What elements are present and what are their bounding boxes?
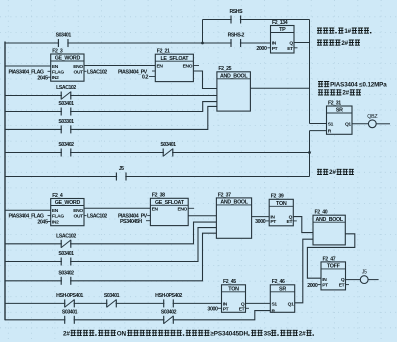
svg-text:F2_21: F2_21	[157, 49, 170, 55]
svg-text:S03401: S03401	[104, 293, 120, 299]
wire rung1 left	[5, 42, 271, 44]
wire RSHS branch vertical	[202, 20, 204, 44]
F2_38 ENO stub	[188, 207, 194, 209]
F2_45 ET stub	[246, 307, 250, 309]
contact S03301	[58, 119, 74, 133]
wire 3000 to F2_45 PT	[218, 307, 222, 309]
junction node rung1/RSHS branch	[201, 42, 204, 45]
svg-text:S03402: S03402	[58, 142, 74, 148]
svg-text:ENO: ENO	[177, 206, 187, 212]
svg-text:OUT: OUT	[74, 214, 84, 220]
svg-text:PT: PT	[272, 46, 278, 52]
function block F2_38 GE_SFLOAT	[150, 193, 188, 226]
svg-text:F2_39: F2_39	[271, 194, 284, 200]
svg-text:S1: S1	[328, 122, 334, 128]
svg-text:IN2: IN2	[52, 220, 59, 226]
contact HSH-0PS401 NC	[56, 293, 83, 307]
svg-text:F2_47: F2_47	[323, 256, 336, 262]
svg-text:ET: ET	[339, 283, 345, 289]
wire F2_39 Q to F2_40 input1	[293, 217, 313, 233]
svg-text:S03301: S03301	[58, 119, 74, 125]
svg-text:3S: 3S	[264, 330, 272, 337]
contact S03401 NC (rung S03402)	[160, 142, 176, 156]
wire 2000 to F2_47 PT	[318, 284, 321, 286]
annotation: oil pressure PIAS3404 <=0.12MPa	[318, 81, 387, 88]
contact S03401 NC (HSH row)	[104, 293, 120, 307]
svg-text:S03401: S03401	[160, 142, 176, 148]
wire 0.2 to F2_21	[149, 76, 155, 78]
svg-text:FLAG: FLAG	[52, 214, 64, 220]
coil J5 (F2_47 output)	[360, 270, 368, 284]
svg-text:QBZ: QBZ	[367, 114, 378, 120]
wire F2_3 ENO to F2_21 EN	[84, 65, 155, 67]
contact S03402	[58, 142, 74, 156]
wire rung LSAC102-NC	[5, 95, 217, 97]
function block F2_3 GE_WORD	[51, 48, 84, 81]
svg-text:F2_37: F2_37	[218, 192, 231, 198]
svg-text:RSHS-2: RSHS-2	[228, 33, 245, 39]
svg-text:EN: EN	[152, 206, 159, 212]
wire PIAS3404_PV to F2_21	[152, 70, 155, 72]
svg-text:F2_31: F2_31	[328, 100, 341, 106]
annotation: normally start 2# pump manually when 1# running	[317, 28, 371, 35]
wire PS34045H to F2_38	[146, 220, 150, 222]
wire F2_46 Q1 up to F2_40 input2	[295, 239, 313, 303]
svg-text:ENO: ENO	[183, 64, 193, 70]
svg-text:ET: ET	[287, 46, 293, 52]
svg-text:PT: PT	[223, 306, 229, 312]
svg-text:F2_45: F2_45	[223, 279, 236, 285]
wire S03402/J5 bus to R	[310, 130, 327, 132]
wire rung LSAC102-NC(2) to F2_37	[5, 222, 216, 244]
function block F2_47 TOFF	[321, 256, 346, 290]
svg-text:2#: 2#	[299, 330, 306, 337]
wire rung S03401 to F2_25	[5, 102, 217, 112]
svg-text:RSHS: RSHS	[229, 9, 243, 15]
svg-text:2#: 2#	[341, 40, 348, 47]
svg-text:LSAC102: LSAC102	[56, 234, 76, 240]
svg-text:EN: EN	[52, 208, 59, 214]
wire coil QBZ right	[376, 123, 390, 125]
wire F2_21 OUT to F2_25 input1	[193, 71, 217, 89]
contact S03401 (reset row)	[62, 310, 78, 324]
annotation line2	[317, 40, 360, 47]
wire bus down to SR S1	[309, 20, 311, 124]
svg-text:ET: ET	[287, 219, 293, 225]
svg-text:J5: J5	[119, 166, 124, 172]
svg-text:F2_4: F2_4	[52, 193, 63, 199]
wire F2_25 output to bus	[250, 87, 309, 89]
function block F2_134 TP	[271, 20, 295, 53]
svg-text:S03401: S03401	[56, 33, 72, 39]
wire coil J5 right	[368, 279, 379, 281]
function block F2_37 AND_BOOL	[216, 192, 251, 238]
svg-text:2045: 2045	[37, 220, 48, 226]
function block F2_40 AND_BOOL	[313, 210, 345, 245]
svg-text:S03402: S03402	[161, 310, 177, 316]
function block F2_31 SR	[327, 100, 353, 134]
svg-text:LSAC102: LSAC102	[56, 85, 76, 91]
wire PIAS3404_FLAG to FLAG	[48, 70, 51, 72]
wire SR Q1 to coil	[352, 123, 368, 125]
function block F2_25 AND_BOOL	[217, 66, 251, 111]
annotation: auto start 2# pump	[318, 89, 361, 96]
svg-text:0.2: 0.2	[142, 75, 149, 81]
contact HSH-0PS402	[155, 293, 182, 307]
svg-text:3000: 3000	[255, 219, 266, 225]
svg-text:S03401: S03401	[62, 310, 78, 316]
wire F2_37 out to F2_39 IN	[252, 216, 270, 218]
svg-text:F2_25: F2_25	[218, 66, 231, 72]
svg-text:OUT: OUT	[74, 69, 84, 75]
svg-text:ON: ON	[117, 330, 127, 337]
svg-text:F2_3: F2_3	[52, 48, 63, 54]
svg-text:S03402: S03402	[58, 271, 74, 277]
wire PIAS3404_PV to F2_38	[147, 215, 150, 217]
wire F2_4 ENO to F2_38 EN	[84, 207, 150, 209]
wire 2000 to PT	[268, 47, 271, 49]
function block F2_45 TON	[222, 279, 246, 312]
wire RSHS branch horizontal	[203, 19, 310, 21]
wire rung S03402	[5, 152, 310, 154]
svg-text:F2_40: F2_40	[315, 210, 328, 216]
wire rung S03301 to F2_25	[5, 106, 217, 129]
svg-text:F2_134: F2_134	[272, 20, 288, 26]
contact S03402 (bottom rung)	[58, 271, 74, 285]
contact S03401 (rung1)	[56, 33, 72, 47]
F2_47 ET stub	[346, 284, 350, 286]
svg-text:PS34045H: PS34045H	[120, 219, 142, 225]
svg-text:S03401: S03401	[58, 101, 74, 107]
wire F2_45 Q to F2_46 S1	[246, 302, 271, 304]
svg-text:LSAC102: LSAC102	[87, 69, 107, 75]
coil QBZ (F2_31 output)	[367, 114, 378, 128]
wire rung S03402(2) to F2_37	[5, 233, 216, 281]
svg-text:S03401: S03401	[58, 251, 74, 257]
contact RSHS	[229, 9, 243, 23]
svg-text:2000: 2000	[307, 283, 318, 289]
wire rung HSH row	[5, 302, 222, 304]
svg-text:PT: PT	[270, 219, 276, 225]
svg-text:ET: ET	[239, 306, 245, 312]
svg-text:HSH-0PS401: HSH-0PS401	[56, 293, 83, 299]
wire rung S03401(3) to F2_37	[5, 228, 216, 262]
function block F2_39 TON	[269, 194, 293, 226]
svg-text:2#: 2#	[329, 169, 336, 176]
TP ET stub	[294, 47, 298, 49]
wire 3000 to F2_39 PT	[266, 220, 269, 222]
wire F2_47 Q to coil J5	[346, 279, 361, 281]
svg-text:EN: EN	[52, 64, 59, 70]
wire PIAS3404_FLAG to FLAG (F2_4)	[48, 215, 51, 217]
wire rung reset row to F2_46 R	[5, 311, 270, 320]
svg-text:PT: PT	[322, 283, 328, 289]
F2_39 ET stub	[293, 220, 297, 222]
svg-text:3000: 3000	[207, 307, 218, 313]
annotation: bottom interlock note	[63, 330, 314, 338]
contact RSHS-2	[228, 33, 245, 47]
svg-text:2000: 2000	[256, 46, 267, 52]
svg-text:2#: 2#	[63, 330, 70, 337]
svg-text:Q1: Q1	[345, 122, 351, 128]
contact S03402 NC (reset row)	[161, 310, 177, 324]
wire rung J5	[5, 176, 310, 178]
function block F2_46 SR	[270, 279, 294, 314]
svg-text:FLAG: FLAG	[52, 69, 64, 75]
svg-text:F2_38: F2_38	[152, 193, 165, 199]
svg-text:Q: Q	[341, 277, 345, 283]
contact J5	[116, 166, 126, 180]
svg-text:EN: EN	[157, 64, 164, 70]
wire bus to S1	[310, 123, 327, 125]
wire F2_3 OUT stub	[84, 70, 87, 72]
contact S03401 (2nd rung)	[58, 101, 74, 115]
wire 2045 to F2_4 IN2	[48, 221, 51, 223]
contact LSAC102 NC	[56, 85, 76, 99]
wire F2_38 OUT to F2_37 input1	[188, 215, 216, 217]
left power rail	[4, 42, 6, 321]
svg-text:J5: J5	[362, 270, 367, 276]
wire rail to F2_3 EN	[5, 65, 51, 67]
svg-text:2045: 2045	[37, 75, 48, 81]
svg-text:LSAC102: LSAC102	[87, 214, 107, 220]
svg-text:Q: Q	[289, 41, 293, 47]
svg-text:≥PS34045DH: ≥PS34045DH	[210, 330, 248, 337]
svg-text:IN2: IN2	[52, 75, 59, 81]
svg-text:ENO: ENO	[73, 64, 83, 70]
wire F2_4 OUT stub	[84, 215, 87, 217]
svg-text:2#: 2#	[342, 90, 349, 97]
svg-text:F2_46: F2_46	[272, 279, 285, 285]
annotation: start 2# pump reset	[317, 169, 354, 176]
function block F2_4 GE_WORD	[51, 193, 84, 226]
wire 2045 to IN2	[48, 76, 51, 78]
svg-text:Q1: Q1	[288, 301, 294, 307]
wire F2_40 out loop to F2_47 IN	[307, 234, 354, 278]
function block F2_21 LE_SFLOAT	[155, 49, 193, 82]
svg-text:1#: 1#	[344, 28, 351, 35]
wire rail to F2_4 EN	[5, 209, 51, 211]
contact LSAC102 NC (bottom)	[56, 234, 76, 248]
svg-text:PIAS3404 ≤0.12MPa: PIAS3404 ≤0.12MPa	[330, 81, 387, 88]
svg-text:ENO: ENO	[73, 208, 83, 214]
wire TP Q output	[294, 42, 310, 44]
wire reset bus vertical	[309, 131, 311, 177]
svg-text:S1: S1	[272, 301, 278, 307]
F2_21 ENO stub	[193, 65, 199, 67]
contact S03401 (bottom rung)	[58, 251, 74, 265]
junction node reset bus / S03402 rung	[308, 151, 311, 154]
svg-text:HSH-0PS402: HSH-0PS402	[155, 293, 182, 299]
